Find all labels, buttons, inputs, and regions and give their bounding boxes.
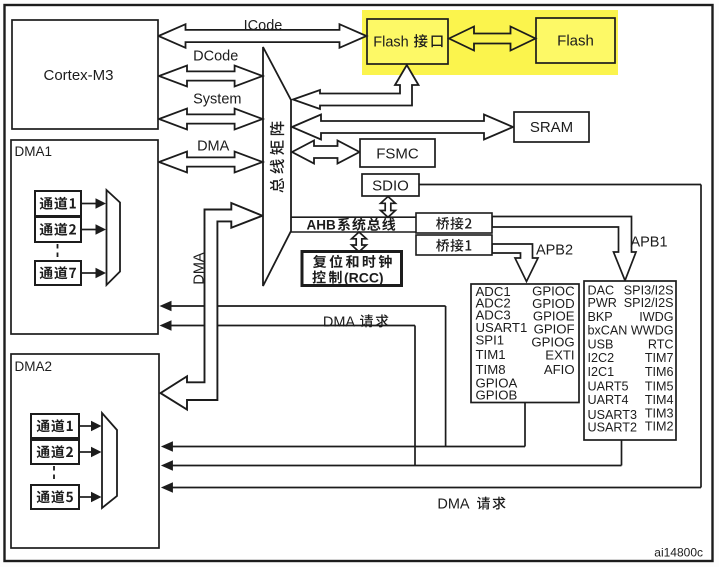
svg-text:AHB: AHB (307, 218, 336, 233)
svg-text:SPI1: SPI1 (476, 333, 505, 348)
svg-text:TIM1: TIM1 (476, 347, 506, 362)
svg-text:GPIOB: GPIOB (476, 387, 518, 402)
svg-text:FSMC: FSMC (376, 146, 419, 163)
svg-text:ICode: ICode (244, 18, 283, 34)
svg-text:IWDG: IWDG (639, 310, 673, 324)
svg-text:WWDG: WWDG (631, 323, 674, 337)
svg-text:SDIO: SDIO (372, 178, 409, 195)
svg-text:TIM4: TIM4 (645, 393, 674, 407)
svg-text:USB: USB (588, 337, 614, 351)
svg-text:UART5: UART5 (588, 380, 629, 394)
svg-text:DMA: DMA (197, 139, 230, 155)
svg-text:SRAM: SRAM (530, 119, 573, 136)
svg-text:DMA: DMA (191, 252, 207, 285)
svg-text:bxCAN: bxCAN (588, 323, 628, 337)
svg-text:Flash: Flash (557, 33, 594, 50)
svg-text:APB2: APB2 (536, 243, 573, 259)
svg-text:(RCC): (RCC) (344, 269, 384, 285)
svg-text:RTC: RTC (648, 337, 674, 351)
svg-text:BKP: BKP (588, 310, 613, 324)
svg-text:AFIO: AFIO (544, 362, 575, 377)
svg-text:I2C1: I2C1 (588, 365, 615, 379)
svg-text:SPI2/I2S: SPI2/I2S (624, 296, 674, 310)
svg-text:APB1: APB1 (630, 235, 667, 251)
svg-text:DMA2: DMA2 (15, 359, 53, 374)
svg-text:USART2: USART2 (588, 421, 637, 435)
svg-text:ai14800c: ai14800c (654, 546, 703, 560)
svg-text:UART4: UART4 (588, 393, 629, 407)
svg-text:TIM6: TIM6 (645, 365, 674, 379)
svg-text:TIM2: TIM2 (645, 419, 674, 433)
svg-text:PWR: PWR (588, 296, 617, 310)
svg-text:System: System (193, 92, 241, 108)
svg-text:I2C2: I2C2 (588, 351, 615, 365)
svg-text:TIM7: TIM7 (645, 351, 674, 365)
svg-text:DMA: DMA (437, 497, 470, 513)
svg-text:DCode: DCode (193, 49, 238, 65)
svg-text:DMA: DMA (323, 314, 356, 330)
svg-text:EXTI: EXTI (545, 348, 574, 363)
svg-text:Cortex-M3: Cortex-M3 (43, 67, 113, 84)
svg-text:DMA1: DMA1 (15, 144, 53, 159)
svg-text:Flash: Flash (373, 35, 408, 51)
svg-text:TIM5: TIM5 (645, 380, 674, 394)
